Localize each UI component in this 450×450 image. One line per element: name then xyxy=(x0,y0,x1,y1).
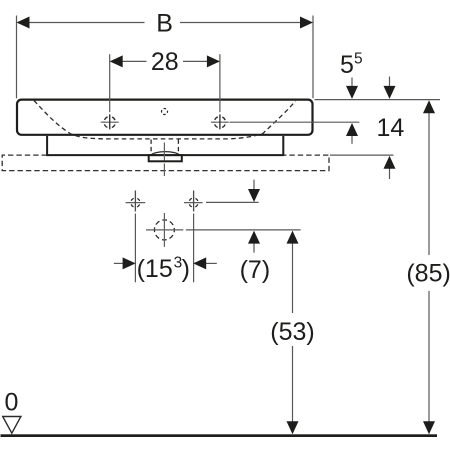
14 top arrow stem xyxy=(389,77,391,88)
85 dimension line xyxy=(428,113,430,256)
drain dome xyxy=(150,152,180,156)
7 down / up xyxy=(248,189,260,202)
svg-text:5: 5 xyxy=(354,50,363,67)
14 bottom extension line xyxy=(330,154,394,156)
5.5 arrow stems xyxy=(351,78,353,88)
drain flange xyxy=(149,155,182,161)
53 dimension line xyxy=(292,242,294,313)
drain centerline xyxy=(163,143,165,177)
15.3 extension lines xyxy=(134,214,136,283)
svg-text:(7): (7) xyxy=(240,256,271,284)
svg-text:(85): (85) xyxy=(406,260,450,288)
7 extension lines xyxy=(206,201,259,203)
5.5 down / up xyxy=(346,86,358,99)
53 up / down xyxy=(287,231,299,244)
faucet hole right xyxy=(214,117,225,128)
svg-text:(15: (15 xyxy=(137,255,173,283)
svg-text:B: B xyxy=(156,9,173,37)
15.3 arrow stems xyxy=(114,262,123,264)
28 dimension line xyxy=(111,60,219,62)
fixing hole right xyxy=(189,198,198,207)
svg-text:14: 14 xyxy=(376,114,404,142)
waste hole xyxy=(154,220,174,240)
overflow hole xyxy=(162,109,168,115)
drain hidden sides xyxy=(151,140,178,154)
7 arrow stems xyxy=(253,180,255,190)
svg-text:5: 5 xyxy=(340,51,354,79)
15.3 right / left xyxy=(123,257,136,269)
28 extension lines xyxy=(109,54,111,112)
85 up / down xyxy=(423,100,435,113)
svg-text:0: 0 xyxy=(5,388,19,416)
svg-text:(53): (53) xyxy=(270,318,314,346)
fixing hole left xyxy=(131,198,140,207)
faucet level extension line xyxy=(230,121,360,123)
washbasin body xyxy=(17,100,313,135)
28 left / right xyxy=(110,55,123,67)
bowl interior hidden outline xyxy=(34,101,296,139)
14 down / up xyxy=(384,86,396,99)
top surface extension line xyxy=(315,99,441,101)
B dimension line xyxy=(28,22,301,24)
B extension lines xyxy=(16,16,18,99)
svg-text:28: 28 xyxy=(151,48,179,76)
faucet hole left xyxy=(104,117,115,128)
under-body (semi pedestal) xyxy=(47,136,283,155)
svg-text:): ) xyxy=(182,255,190,283)
mounting frame hidden rectangle xyxy=(2,155,329,171)
B left / right xyxy=(17,17,30,29)
